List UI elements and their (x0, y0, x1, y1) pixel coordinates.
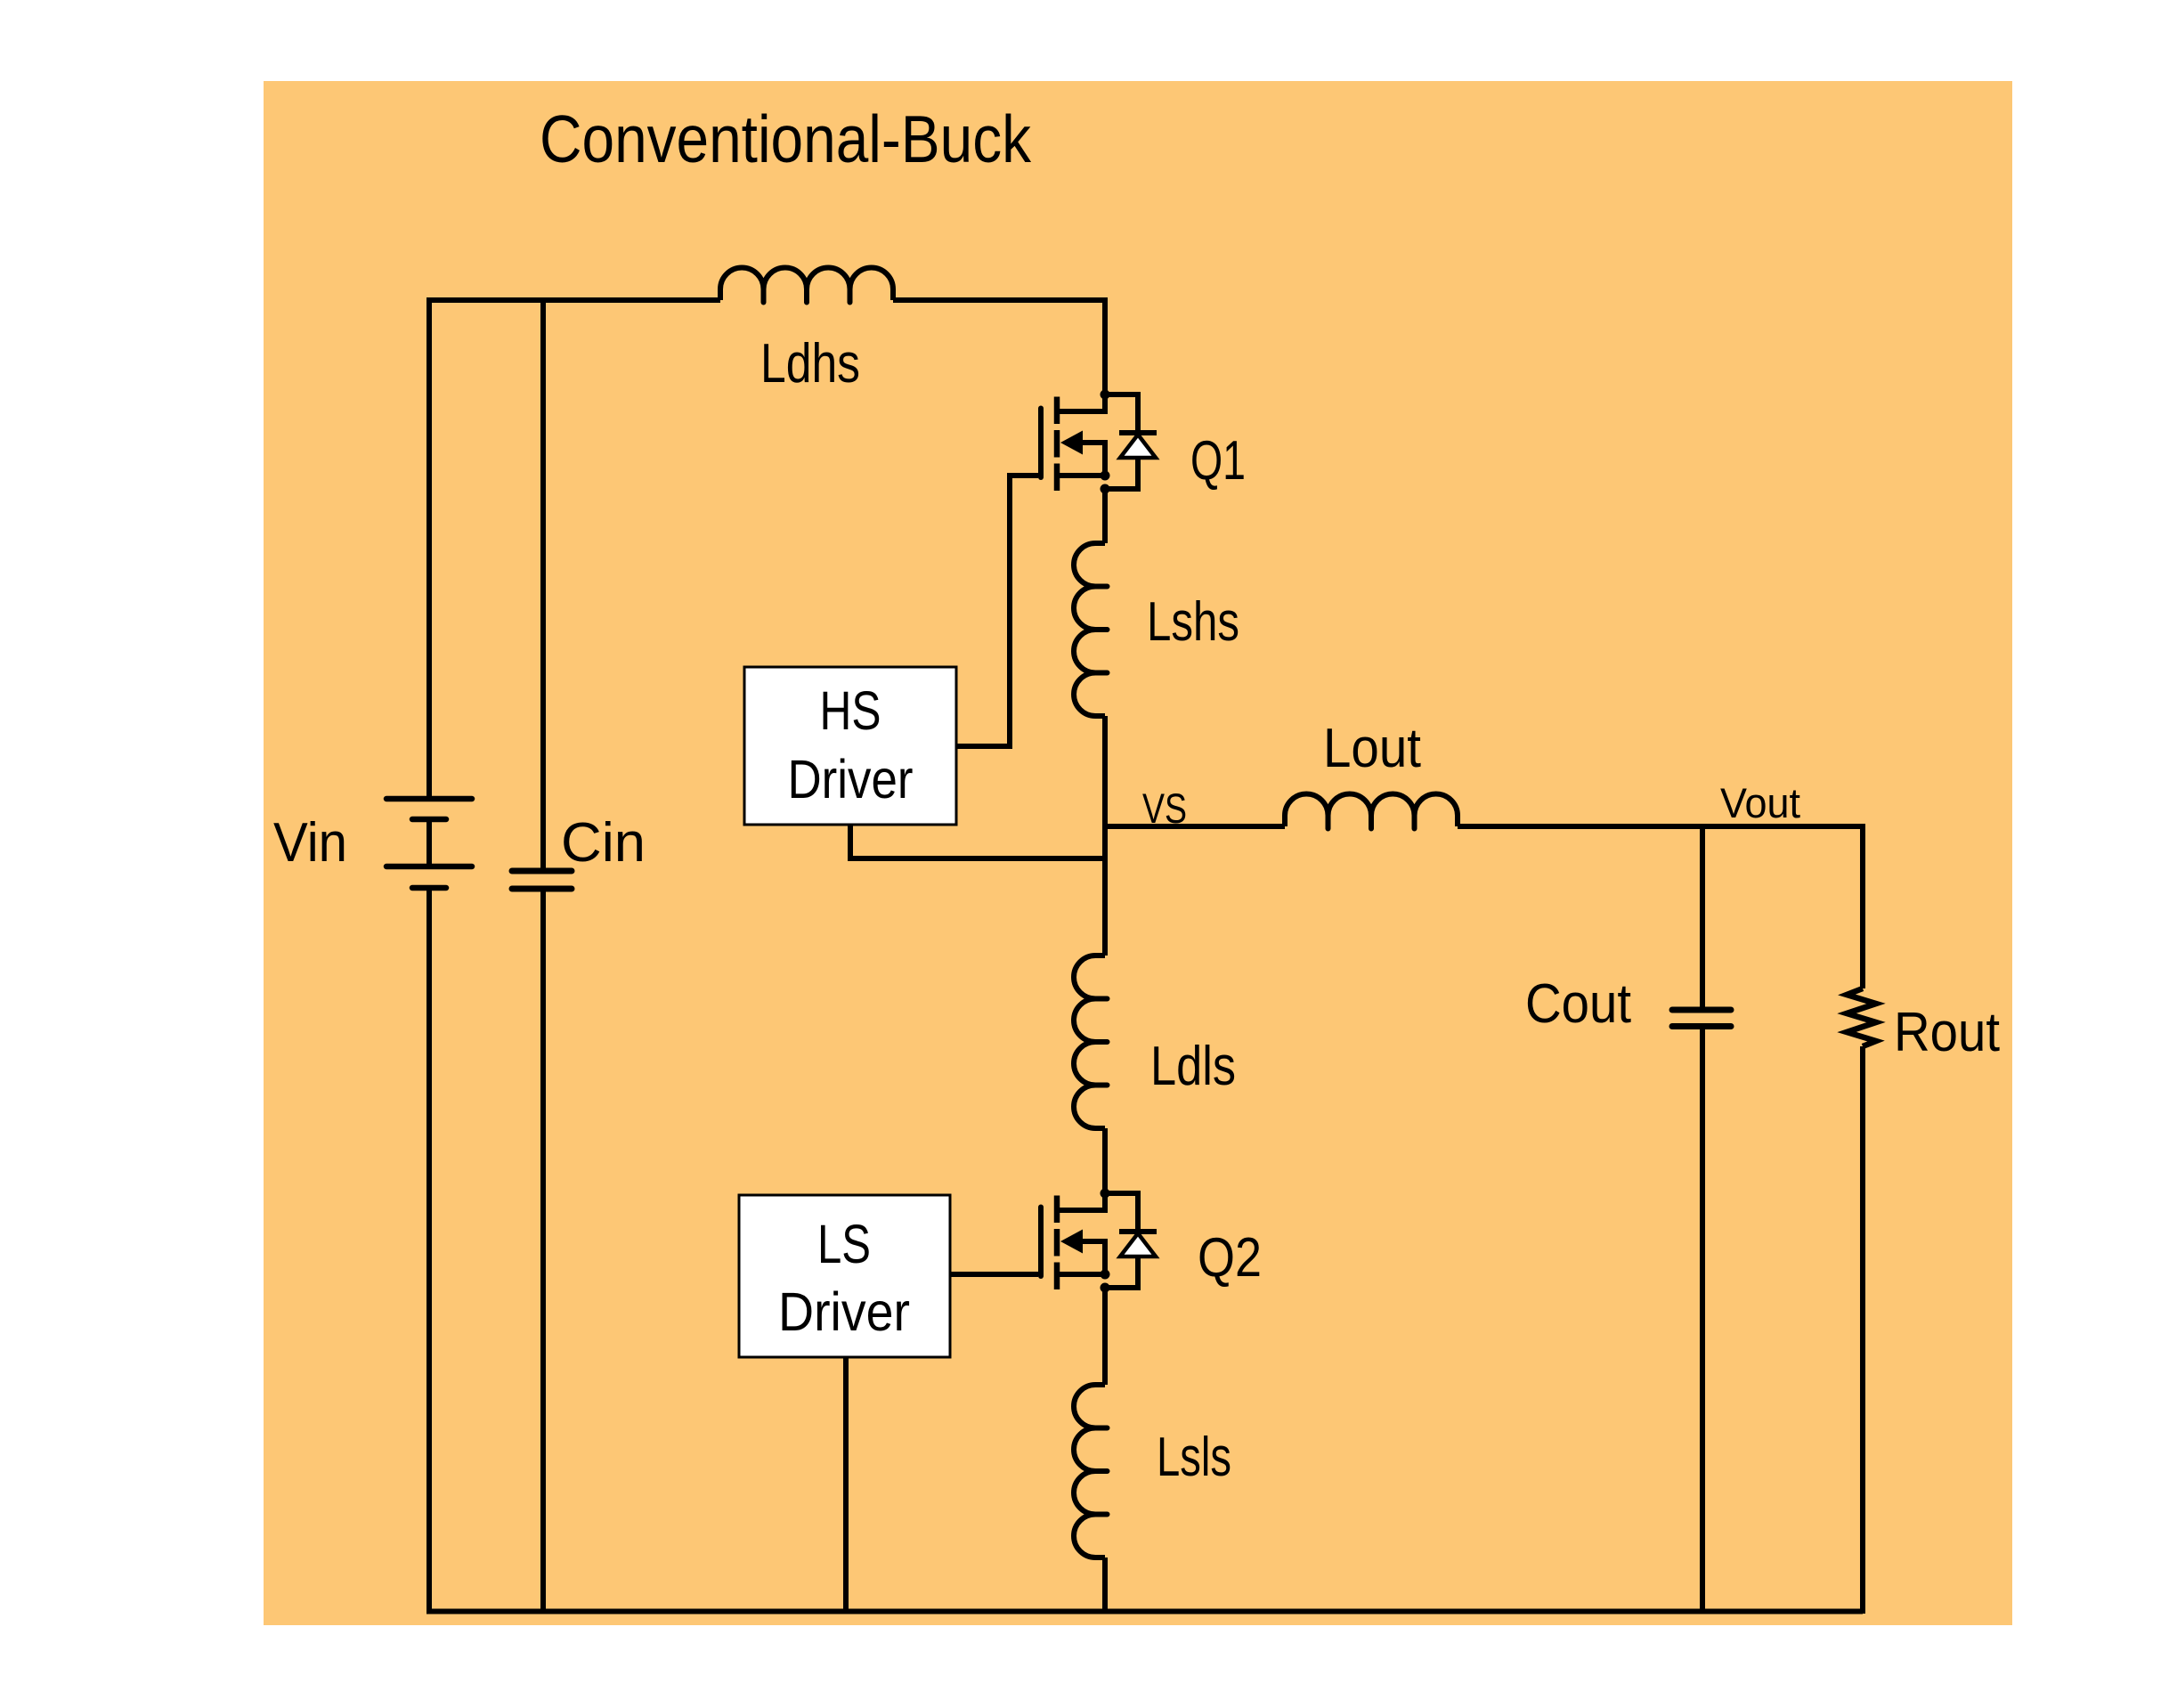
wire Q2 body-diode branch (1105, 1193, 1138, 1288)
resistor Rout (1847, 988, 1876, 1046)
wire Q1 drain lead (1057, 394, 1105, 411)
orange schematic panel (264, 81, 2012, 1625)
svg-text:Ldls: Ldls (1150, 1036, 1236, 1097)
Q2 channel bar (1054, 1196, 1060, 1290)
svg-text:Lshs: Lshs (1147, 591, 1239, 653)
wire Q2 drain lead (1057, 1193, 1105, 1210)
inductor Lsls (1074, 1385, 1108, 1558)
HS Driver box (744, 667, 956, 825)
body diode D2 triangle (1120, 1233, 1156, 1257)
wire Q2 source to Lsls (1102, 1288, 1108, 1385)
wire Ldls to Q2 drain (1102, 1128, 1108, 1193)
wire Rout to bottom rail (1860, 1046, 1865, 1614)
body diode D1 cathode bar (1119, 430, 1157, 435)
svg-text:Q2: Q2 (1198, 1227, 1262, 1289)
Q1 channel bar (1054, 397, 1060, 492)
wire Ldhs to Q1 drain (893, 300, 1105, 394)
wire Lout to Rout corner (1458, 826, 1863, 988)
node Q1 source junction (1101, 471, 1110, 481)
svg-text:Vout: Vout (1720, 779, 1800, 826)
wire bottom ground rail (426, 1609, 1863, 1614)
node Q2 source junction (1101, 1270, 1110, 1280)
svg-text:Lout: Lout (1323, 718, 1421, 779)
wire Cin lower branch (540, 889, 546, 1614)
wire LS Driver output to Q2 gate (950, 1272, 1038, 1277)
Q2 body arrow (1060, 1230, 1083, 1254)
node Q1 diode return junction (1101, 484, 1110, 494)
wire Q1 body-diode branch (1105, 394, 1138, 489)
body diode D1 triangle (1120, 435, 1156, 458)
svg-text:Vin: Vin (273, 812, 347, 874)
wire Q2 source lead (1057, 1272, 1105, 1277)
svg-text:Lsls: Lsls (1157, 1427, 1231, 1488)
wire Q1 source to Lshs (1102, 489, 1108, 543)
capacitor Cout (1672, 1010, 1731, 1027)
transistor Q1 (1041, 390, 1157, 494)
node Q1 drain junction (1101, 390, 1110, 400)
inductor Ldhs (720, 268, 893, 303)
svg-text:Driver: Driver (778, 1281, 910, 1342)
node Q2 diode return junction (1101, 1283, 1110, 1293)
wire Cout to bottom rail (1700, 1029, 1705, 1614)
svg-text:Driver: Driver (788, 749, 914, 809)
wire Vin negative branch (426, 887, 432, 1614)
Q2 gate bar (1038, 1208, 1044, 1277)
wire LS Driver return to bottom rail (843, 1357, 849, 1614)
svg-text:Cout: Cout (1525, 973, 1631, 1035)
wire HS Driver return to VS node (850, 825, 1105, 858)
inductor Lshs (1074, 543, 1108, 716)
transistor Q2 (1041, 1189, 1157, 1293)
svg-text:Ldhs: Ldhs (760, 333, 860, 394)
wire top rail from Vin to Ldhs (429, 297, 720, 303)
inductor Ldls (1074, 956, 1108, 1128)
inductor Lout (1285, 794, 1458, 829)
body diode D2 cathode bar (1119, 1229, 1157, 1234)
svg-text:LS: LS (817, 1214, 871, 1274)
battery Vin (386, 799, 472, 888)
Q1 gate bar (1038, 409, 1044, 478)
wire VS node vertical from Lshs to Ldls (1102, 716, 1108, 956)
wire Q2 body lead (1082, 1241, 1105, 1274)
wire Q1 body lead (1082, 443, 1105, 476)
wire VS to Lout (1105, 824, 1285, 829)
wire Vin positive branch (426, 297, 432, 799)
svg-text:Rout: Rout (1894, 1002, 2000, 1063)
wire Q1 source lead (1057, 473, 1105, 478)
svg-text:HS: HS (820, 680, 881, 741)
Q1 body arrow (1060, 431, 1083, 455)
LS Driver box (739, 1195, 950, 1357)
svg-text:Q1: Q1 (1190, 430, 1246, 492)
svg-text:Conventional-Buck: Conventional-Buck (540, 102, 1031, 176)
node Q2 drain junction (1101, 1189, 1110, 1199)
svg-text:Cin: Cin (561, 812, 646, 874)
wire Vout to Cout (1700, 826, 1705, 1010)
capacitor Cin (512, 871, 572, 889)
wire Cin upper branch (540, 297, 546, 871)
wire HS Driver output to Q1 gate (956, 476, 1038, 746)
wire Lsls to bottom rail (1102, 1558, 1108, 1614)
